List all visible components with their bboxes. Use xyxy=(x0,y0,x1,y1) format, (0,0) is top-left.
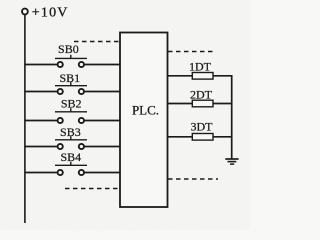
svg-text:+10V: +10V xyxy=(32,5,69,20)
svg-text:SB4: SB4 xyxy=(60,150,81,164)
svg-text:PLC.: PLC. xyxy=(132,103,159,118)
svg-text:SB1: SB1 xyxy=(59,71,80,85)
solenoid 3DT xyxy=(167,120,232,140)
terminal +10V xyxy=(22,9,28,15)
pushbutton SB4 xyxy=(25,150,120,175)
svg-text:SB2: SB2 xyxy=(61,97,82,111)
pushbutton SB1 xyxy=(25,71,120,94)
wire dashed top-left xyxy=(74,41,120,43)
wire dashed bottom-right xyxy=(168,178,218,180)
svg-text:1DT: 1DT xyxy=(189,60,212,74)
wire xyxy=(25,172,58,174)
wire dashed bottom-left xyxy=(65,188,120,190)
wire dashed top-right xyxy=(168,51,214,53)
solenoid 2DT xyxy=(167,87,232,106)
pushbutton SB3 xyxy=(25,125,120,149)
wire xyxy=(25,120,58,122)
pushbutton SB2 xyxy=(25,97,120,123)
wire left bus xyxy=(24,15,26,223)
wire xyxy=(25,64,58,66)
wire right bus xyxy=(231,75,233,159)
ground xyxy=(225,159,238,164)
svg-text:2DT: 2DT xyxy=(190,87,213,101)
wire xyxy=(167,75,192,77)
wire xyxy=(25,91,58,93)
wire xyxy=(167,136,192,138)
pushbutton SB0 xyxy=(25,42,120,67)
PLC U1 box xyxy=(120,33,168,208)
svg-text:SB0: SB0 xyxy=(58,42,79,56)
solenoid 1DT xyxy=(167,60,232,80)
svg-text:3DT: 3DT xyxy=(191,120,214,134)
svg-text:SB3: SB3 xyxy=(60,125,81,139)
wire xyxy=(167,103,192,105)
wire xyxy=(25,146,58,148)
